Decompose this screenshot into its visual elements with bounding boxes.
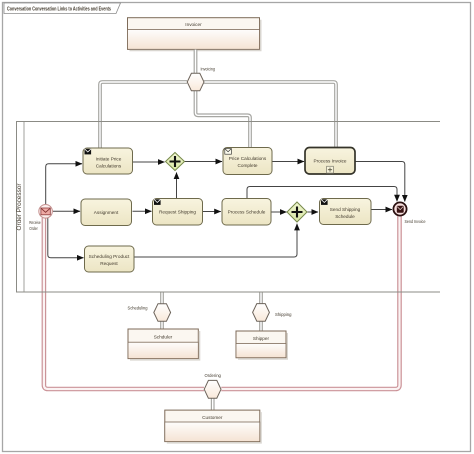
- conversation link: Invoicer pool to Invoicing hexagon: [194, 50, 198, 74]
- conversation link: Invoicing hexagon to Process Invoice: [204, 82, 336, 148]
- conversation link: Shipping hexagon to Shipper pool: [259, 321, 263, 332]
- task Request Shipping: [153, 199, 203, 226]
- task Assignment: [81, 199, 132, 226]
- svg-text:Schedule: Schedule: [335, 214, 355, 219]
- svg-text:Shipper: Shipper: [253, 336, 270, 341]
- sequence flow: parallel gateway 2 to Send Shipping Schedule: [308, 211, 319, 213]
- svg-text:Process Invoice: Process Invoice: [313, 159, 346, 164]
- subprocess Process Invoice: [305, 148, 355, 175]
- svg-text:Order Processor: Order Processor: [17, 184, 23, 231]
- sequence flow: Request Shipping to parallel gateway 1: [176, 173, 178, 199]
- conversation link: Scheduling hexagon to Schduler pool: [160, 321, 164, 330]
- svg-text:Process Schedule: Process Schedule: [228, 210, 266, 215]
- conversation link: Ordering hexagon to Customer pool: [211, 398, 215, 410]
- start event Receive Order: [39, 205, 53, 219]
- svg-text:Request Shipping: Request Shipping: [159, 210, 196, 215]
- parallel gateway 2: [287, 202, 307, 222]
- conversation link: Receive Order to Ordering hexagon (pink): [44, 218, 204, 389]
- conversation link: Invoicing hexagon to Initiate Price Calculations: [100, 82, 187, 148]
- svg-text:Schduler: Schduler: [154, 334, 173, 339]
- svg-text:Customer: Customer: [202, 415, 223, 420]
- pool Schduler: [128, 329, 200, 360]
- sequence flow: Receive Order to Scheduling Product Request: [48, 218, 84, 258]
- title tab: [4, 3, 121, 14]
- svg-text:Scheduling Product: Scheduling Product: [89, 254, 130, 259]
- sequence flow: Process Schedule to parallel gateway 2: [272, 211, 287, 213]
- pool Customer: [165, 410, 261, 443]
- svg-text:Scheduling: Scheduling: [128, 305, 148, 310]
- svg-text:Shipping: Shipping: [275, 312, 292, 317]
- svg-text:Invoicing: Invoicing: [201, 67, 216, 72]
- conversation node Scheduling: [154, 304, 171, 322]
- task Process Schedule: [222, 199, 271, 226]
- conversation node Ordering: [204, 380, 221, 398]
- sequence flow: Process Invoice to Send Invoice: [356, 162, 405, 202]
- svg-text:Invoicer: Invoicer: [185, 22, 202, 27]
- svg-text:Assignment: Assignment: [94, 210, 119, 215]
- sequence flow: parallel gateway 1 to Price Calculations Complete: [185, 161, 223, 163]
- sequence flow: Request Shipping to Process Schedule: [203, 211, 221, 213]
- sequence flow: Receive Order to Initiate Price Calculations: [46, 164, 82, 204]
- task Send Shipping Schedule: [320, 199, 372, 225]
- svg-text:Send Invoice: Send Invoice: [405, 219, 426, 224]
- task Scheduling Product Request: [85, 246, 135, 272]
- svg-text:Complete: Complete: [237, 163, 257, 168]
- svg-text:Order: Order: [29, 226, 38, 231]
- sequence flow: Scheduling Product Request to parallel gateway 2: [135, 224, 298, 257]
- pool Order Processor bottom border: [16, 291, 440, 293]
- svg-text:Calculations: Calculations: [96, 163, 122, 168]
- pool Order Processor top border: [16, 121, 440, 123]
- svg-text:Conversation Conversation Link: Conversation Conversation Links to Activ…: [7, 6, 111, 12]
- conversation link: Ordering hexagon to Send Invoice (pink): [221, 216, 399, 390]
- pool Order Processor: [17, 122, 25, 293]
- svg-text:Price Calculations: Price Calculations: [229, 156, 267, 161]
- conversation link: Order Processor pool to Shipping hexagon: [259, 292, 263, 304]
- svg-text:Ordering: Ordering: [205, 373, 222, 378]
- sequence flow: Price Calculations Complete to Process Invoice: [273, 161, 305, 163]
- sequence flow: Initiate Price Calculations to parallel gateway 1: [133, 161, 165, 163]
- conversation link: Invoicing hexagon to Price Calculations Complete: [196, 91, 251, 148]
- svg-text:Send Shipping: Send Shipping: [330, 207, 361, 212]
- pool Shipper: [236, 331, 287, 359]
- sequence flow: Receive Order to Assignment: [53, 210, 80, 212]
- conversation link: Order Processor pool to Scheduling hexagon: [160, 292, 164, 304]
- pool Invoicer: [128, 18, 261, 51]
- svg-text:Initiate Price: Initiate Price: [96, 156, 122, 161]
- task Initiate Price Calculations: [83, 148, 133, 174]
- sequence flow: Send Shipping Schedule to Send Invoice: [372, 209, 393, 211]
- conversation node Shipping: [253, 304, 270, 322]
- svg-text:Request: Request: [100, 261, 118, 266]
- parallel gateway 1: [166, 153, 185, 171]
- end event Send Invoice: [393, 202, 406, 215]
- sequence flow: Assignment to Request Shipping: [133, 210, 152, 212]
- sequence flow: Process Schedule to Send Invoice: [247, 187, 397, 202]
- task Price Calculations Complete: [223, 148, 272, 175]
- conversation node Invoicing: [187, 73, 204, 91]
- svg-text:Receive: Receive: [29, 220, 41, 225]
